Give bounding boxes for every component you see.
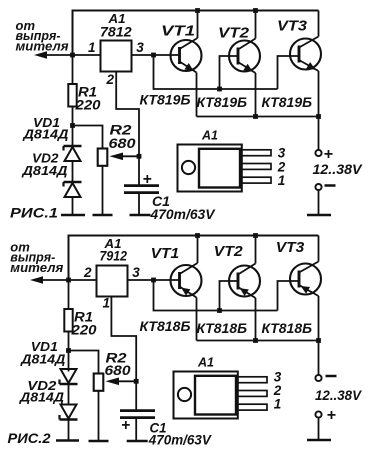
voltage regulator U A1 box: [97, 266, 128, 297]
zener diode VD1: [64, 146, 82, 161]
variable resistor R2: [94, 374, 104, 391]
svg-text:А1: А1: [197, 355, 214, 370]
junction node VD1/R2: [66, 348, 71, 353]
junction reg out / base bus: [151, 278, 156, 283]
svg-text:VT2: VT2: [214, 244, 243, 260]
wire input riser to rail: [68, 235, 70, 281]
svg-text:220: 220: [74, 98, 101, 113]
resistor R1: [68, 84, 76, 107]
A1 package body: [195, 376, 236, 415]
wire top supply rail: [73, 10, 319, 12]
svg-text:А1: А1: [201, 128, 218, 143]
junction emitter bus / VT2: [253, 114, 258, 119]
svg-text:12..38V: 12..38V: [315, 388, 362, 403]
ground bar under R2: [93, 214, 113, 217]
ground bar under C1: [130, 214, 151, 217]
wire node to R1: [72, 55, 74, 84]
A1 package pin 2: [240, 164, 271, 170]
svg-text:680: 680: [105, 363, 132, 378]
wire R1 to VD1: [68, 332, 70, 372]
svg-text:+: +: [327, 407, 336, 424]
zener diode VD2: [64, 182, 82, 197]
svg-text:1: 1: [88, 40, 96, 55]
svg-text:+: +: [324, 146, 333, 163]
junction base bus / VT2: [217, 308, 222, 313]
A1 package pin 3: [236, 377, 267, 383]
svg-text:3: 3: [132, 265, 140, 280]
A1 package pin 1: [240, 177, 271, 183]
wire R2 to ground: [98, 391, 100, 441]
svg-text:мителя: мителя: [16, 38, 69, 53]
wire base bus: [154, 55, 278, 89]
svg-text:Д814Д: Д814Д: [21, 164, 67, 178]
wire node to R1: [68, 280, 70, 309]
input arrow head: [34, 51, 47, 59]
wire reg bottom pin to wiper junction: [111, 297, 136, 382]
wire VD1 to VD2: [72, 161, 74, 182]
svg-text:2: 2: [106, 72, 115, 87]
junction input node: [70, 53, 75, 58]
junction emitter bus / output: [316, 114, 321, 119]
wire node to R2 top: [69, 351, 99, 374]
capacitor C1 plus plate: [124, 184, 159, 187]
wire C1 to ground: [138, 193, 140, 215]
svg-text:470m/63V: 470m/63V: [149, 207, 215, 222]
svg-text:+: +: [121, 417, 130, 434]
capacitor C1 plus plate: [120, 409, 155, 412]
A1 package mounting hole: [178, 388, 191, 401]
svg-text:КТ819Б: КТ819Б: [140, 92, 191, 108]
ground terminal +: [315, 411, 321, 417]
output terminal -: [315, 375, 321, 381]
svg-text:470m/63V: 470m/63V: [148, 432, 212, 447]
junction rail / VT1 collector: [195, 233, 200, 238]
junction input node: [66, 278, 71, 283]
wire reg out pin to VT1 base: [128, 279, 180, 281]
A1 package pin 2: [236, 391, 267, 397]
wire top supply rail: [69, 235, 319, 237]
ground bar under VD2: [61, 214, 85, 217]
wiper arrow into R2: [110, 153, 124, 161]
wire terminal to ground: [318, 418, 320, 441]
ground bar under terminal: [307, 439, 331, 442]
svg-text:Д814Д: Д814Д: [19, 391, 64, 405]
svg-text:VT3: VT3: [276, 240, 305, 256]
svg-text:мителя: мителя: [10, 260, 63, 275]
svg-text:7812: 7812: [100, 24, 132, 40]
wire bus to output terminal: [318, 117, 320, 150]
svg-text:12..38V: 12..38V: [313, 162, 363, 177]
wire node to R2 top: [73, 126, 103, 149]
wire R2 to ground: [102, 166, 104, 215]
wire VD2 to ground: [72, 198, 74, 216]
A1 package mounting hole: [182, 161, 195, 174]
input arrow head: [30, 276, 43, 284]
svg-text:VT1: VT1: [161, 24, 195, 40]
svg-text:+: +: [143, 171, 152, 188]
wire input to reg pin: [73, 54, 101, 56]
output terminal +: [315, 150, 321, 156]
junction R2 wiper / C1 / reg pin: [134, 379, 139, 384]
ground bar under C1: [127, 440, 148, 443]
junction emitter bus / VT2: [253, 338, 258, 343]
transistor VT1 КТ818Б: [171, 236, 202, 341]
svg-text:7912: 7912: [100, 248, 128, 264]
A1 package drawing (TO-220 tab): [178, 145, 242, 192]
transistor VT3 КТ818Б: [290, 236, 321, 341]
wire input riser to rail: [72, 10, 74, 56]
ground bar under R2: [89, 440, 109, 443]
svg-text:КТ818Б: КТ818Б: [140, 318, 191, 334]
A1 package pin 3: [240, 150, 271, 156]
svg-text:КТ818Б: КТ818Б: [262, 320, 313, 336]
wire emitter bus: [197, 116, 319, 118]
wire base bus to VT2 base: [220, 56, 239, 89]
wire junction to C1: [135, 381, 137, 409]
svg-text:220: 220: [70, 323, 97, 338]
svg-text:1: 1: [103, 296, 111, 311]
junction base bus / VT2: [217, 87, 222, 92]
zener diode VD2: [60, 405, 78, 420]
svg-text:2: 2: [83, 265, 92, 280]
wire wiper to junction: [118, 380, 136, 382]
wire junction to C1: [138, 156, 140, 184]
junction emitter bus / output: [316, 338, 321, 343]
wire input lead: [42, 279, 69, 281]
wire base bus to VT3 base: [278, 281, 300, 311]
svg-text:680: 680: [109, 136, 137, 151]
junction reg out / base bus: [151, 53, 156, 58]
wire C1 to ground: [135, 418, 137, 441]
wire base bus to VT2 base: [220, 281, 239, 311]
capacitor C1 minus plate: [124, 191, 159, 194]
wire VD1 to VD2: [68, 384, 70, 406]
junction node VD1/R2: [70, 123, 75, 128]
ground bar under terminal: [307, 214, 331, 217]
svg-text:1: 1: [274, 397, 282, 412]
transistor VT1 КТ819Б: [171, 11, 202, 117]
variable resistor R2: [98, 149, 108, 166]
wire input to reg pin: [69, 279, 97, 281]
label ground - sign: [325, 184, 336, 187]
voltage regulator U A1 box: [101, 41, 132, 72]
junction R2 wiper / C1 / reg pin: [137, 154, 142, 159]
transistor VT2 КТ818Б: [229, 236, 260, 341]
svg-text:КТ819Б: КТ819Б: [197, 94, 248, 110]
svg-text:3: 3: [136, 40, 144, 55]
wire VD2 to ground: [68, 420, 70, 441]
wire wiper to junction: [122, 155, 139, 157]
svg-text:РИС.2: РИС.2: [8, 430, 51, 446]
svg-text:VT3: VT3: [277, 19, 307, 35]
label output - sign: [326, 375, 337, 378]
wire bus to output terminal: [318, 341, 320, 375]
junction rail / VT2 collector: [253, 8, 258, 13]
svg-text:VT1: VT1: [151, 246, 180, 262]
wire R1 to VD1: [72, 107, 74, 147]
capacitor C1 minus plate: [120, 416, 155, 419]
wire base bus: [154, 280, 278, 311]
junction rail / VT2 collector: [253, 233, 258, 238]
svg-text:РИС.1: РИС.1: [10, 205, 58, 221]
wiper arrow into R2: [106, 378, 120, 386]
A1 package drawing (TO-220 tab): [174, 372, 238, 419]
svg-text:Д814Д: Д814Д: [20, 353, 65, 367]
svg-text:КТ819Б: КТ819Б: [262, 94, 313, 110]
resistor R1: [64, 309, 72, 332]
wire emitter bus: [197, 340, 319, 342]
ground bar under VD2: [56, 439, 79, 442]
svg-text:1: 1: [278, 173, 286, 188]
wire reg bottom pin to wiper junction: [116, 72, 139, 157]
ground terminal -: [315, 184, 321, 190]
wire reg out pin to VT1 base: [132, 54, 180, 56]
wire terminal to ground: [318, 190, 320, 215]
A1 package pin 1: [236, 404, 267, 410]
transistor VT2 КТ819Б: [229, 11, 260, 117]
svg-text:КТ818Б: КТ818Б: [197, 320, 248, 336]
svg-text:VT2: VT2: [218, 26, 249, 42]
A1 package body: [199, 149, 240, 188]
zener diode VD1: [60, 369, 78, 384]
wire base bus to VT3 base: [278, 56, 300, 89]
wire input lead: [46, 54, 73, 56]
transistor VT3 КТ819Б: [290, 11, 321, 117]
svg-text:Д814Д: Д814Д: [22, 128, 68, 142]
junction rail / VT1 collector: [195, 8, 200, 13]
